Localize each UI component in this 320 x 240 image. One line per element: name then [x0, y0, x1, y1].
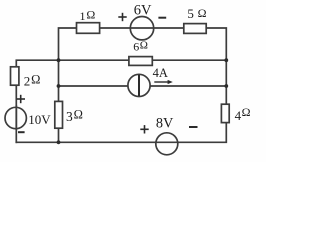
svg-text:Ω: Ω — [198, 6, 207, 20]
label 6ohm — [133, 40, 148, 54]
wire top row between 1ohm and 6V source — [100, 27, 183, 29]
svg-text:8V: 8V — [156, 115, 174, 131]
wire middle vertical row2-row3-3ohm — [58, 60, 60, 100]
wire row3 (node to current source and right rail) — [59, 85, 227, 87]
svg-text:3: 3 — [66, 109, 73, 124]
junction bottom-3ohm — [57, 140, 61, 144]
label 4ohm — [235, 105, 251, 123]
label 1ohm — [80, 7, 96, 23]
svg-text:4: 4 — [235, 108, 242, 123]
resistor 5ohm — [184, 24, 206, 34]
resistor 4ohm — [221, 104, 229, 122]
wire 2ohm bottom to 10V top — [15, 86, 17, 129]
minus sign 6V — [158, 17, 166, 19]
minus sign 8V — [189, 126, 198, 128]
svg-text:Ω: Ω — [31, 73, 40, 87]
junction row2-right — [224, 58, 228, 62]
junction row3-left — [57, 84, 61, 88]
svg-text:10V: 10V — [28, 112, 51, 127]
svg-text:6: 6 — [133, 40, 139, 54]
resistor 1ohm — [77, 23, 100, 34]
wire left rail top (row2 corner down to 2ohm) — [16, 60, 128, 66]
label 3ohm — [66, 108, 83, 124]
plus sign 10V — [17, 95, 26, 103]
svg-text:5: 5 — [187, 6, 194, 21]
wire top row 5ohm to right rail corner — [207, 28, 226, 103]
wire left rail bottom (10V source to bottom wire) — [15, 106, 17, 142]
voltage source 8V — [156, 133, 178, 155]
label 5ohm — [187, 6, 206, 21]
voltage source 6V — [130, 17, 153, 40]
wire top-left vertical (node A to top row) — [59, 28, 76, 60]
svg-text:Ω: Ω — [86, 7, 95, 21]
svg-text:Ω: Ω — [140, 40, 148, 52]
resistor 6ohm — [129, 57, 152, 66]
wire row2 right (6ohm to right rail) — [153, 59, 226, 61]
svg-text:4A: 4A — [153, 66, 168, 80]
current source 4A — [128, 74, 150, 96]
plus sign 8V — [140, 125, 148, 133]
junction row2-left — [57, 58, 61, 62]
minus sign 10V — [18, 131, 25, 133]
wire right rail below 4ohm to bottom-right corner — [16, 123, 226, 142]
resistor 2ohm — [11, 67, 19, 85]
arrow 4A — [154, 80, 173, 84]
svg-text:1: 1 — [80, 9, 86, 23]
junction row3-right — [224, 84, 228, 88]
svg-text:Ω: Ω — [242, 105, 251, 119]
plus sign 6V — [118, 13, 126, 21]
svg-text:Ω: Ω — [74, 108, 83, 122]
label 2ohm — [24, 73, 41, 89]
wire 3ohm bottom to bottom wire — [58, 129, 60, 142]
svg-text:2: 2 — [24, 74, 31, 89]
voltage source 10V — [5, 107, 26, 128]
svg-text:6V: 6V — [134, 2, 152, 18]
resistor 3ohm — [55, 101, 63, 128]
